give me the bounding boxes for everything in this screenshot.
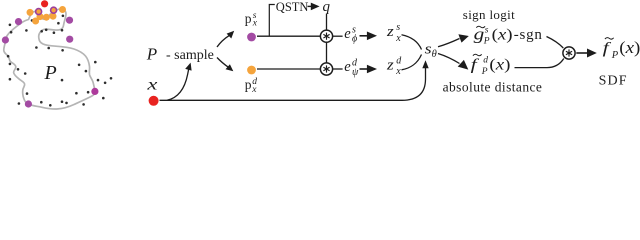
svg-text:e: e [344,59,351,75]
svg-text:ϕ: ϕ [352,33,357,44]
svg-text:x: x [146,76,158,93]
svg-text:P: P [611,50,619,61]
svg-text:P: P [44,62,57,84]
orange surface points cluster [27,6,67,25]
scattered sample dots (dark) [7,15,112,107]
node p_x^d (orange dot) [247,66,256,75]
wire concat to e_phi^s [332,35,342,37]
arrow QSTN to q [308,5,313,7]
wire concat to e_psi^d [332,68,342,70]
arrow x line up to sample [167,70,189,101]
concat operator top (circled asterisk) [320,30,332,42]
svg-text:z: z [386,24,395,40]
concat operator bottom (circled asterisk) [320,63,332,75]
svg-text:x: x [395,33,401,44]
arrow e_phi^s to z_x^s [360,35,369,37]
svg-text:(x): (x) [619,38,640,57]
svg-text:-sgn: -sgn [514,27,543,43]
arrow sample to p_x^s [217,35,229,47]
wire f to mult [515,59,564,68]
svg-text:x: x [251,85,257,95]
orange points with purple ring [36,9,42,15]
svg-text:p: p [245,11,252,26]
svg-text:e: e [344,26,351,42]
wire sgn to mult [547,37,564,49]
mult operator (circled asterisk) [563,47,575,59]
arrow mult to f_P(x) [576,52,588,54]
svg-text:P: P [483,37,490,47]
arrow s_theta to g (sign branch) [438,39,460,47]
wire between concat operators [326,42,328,63]
point cloud blob outline [4,9,95,109]
svg-text:sign logit: sign logit [463,7,515,22]
svg-text:P: P [146,44,157,63]
wire x to s_theta (long bottom line with corner) [160,67,426,101]
node p_x^s (purple dot) [247,33,256,42]
magenta point bottom right [91,88,98,95]
wire z_x^d to s_theta (brace curve bottom) [402,55,422,70]
purple surface points [2,17,73,108]
svg-text:s: s [425,40,432,57]
wire p_x^s to concat [257,35,321,37]
svg-text:(x): (x) [492,25,513,43]
arrow s_theta to f (distance branch) [438,54,460,64]
QSTN corner bracket [269,5,275,37]
svg-text:d: d [483,56,488,66]
arrow e_psi^d to z_x^d [360,68,369,70]
svg-text:SDF: SDF [599,74,628,89]
svg-text:(x): (x) [489,55,510,73]
svg-text:s: s [396,22,400,33]
svg-text:x: x [395,66,401,77]
svg-text:ψ: ψ [352,67,359,78]
red dot x [149,96,159,106]
svg-text:f: f [471,56,480,73]
wire z_x^s to s_theta (brace curve top) [402,35,422,50]
svg-text:f: f [603,40,612,57]
wire p_x^d to concat [257,68,321,70]
svg-text:absolute distance: absolute distance [443,80,543,95]
svg-text:p: p [245,77,252,92]
svg-text:- sample: - sample [166,48,214,63]
wire q down to concat [326,14,328,31]
svg-text:θ: θ [432,49,437,60]
svg-text:q: q [323,0,331,15]
svg-text:x: x [252,18,258,28]
red sampled point above blob [41,0,48,7]
svg-text:QSTN: QSTN [276,0,309,14]
arrow sample to p_x^d [217,58,228,68]
svg-text:z: z [386,57,395,73]
svg-text:s: s [485,26,489,36]
svg-text:d: d [396,55,402,66]
svg-text:P: P [481,67,488,77]
